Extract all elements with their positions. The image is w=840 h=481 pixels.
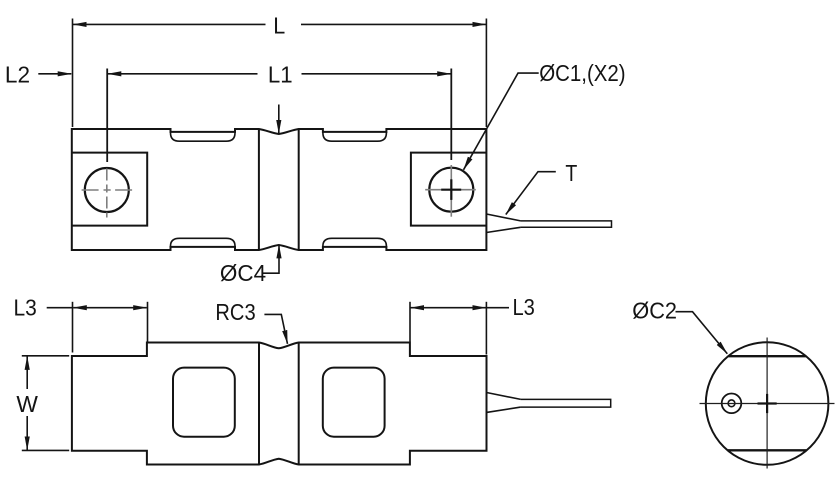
dimension and leader lines [22,19,728,451]
right boss square [411,153,487,226]
L2 leader arrow [38,73,71,75]
L1 extension line right [450,69,452,161]
L3 left extension lines [72,302,74,353]
end view crosshair horizontal [700,403,835,405]
end view bottom flat chord [728,449,807,451]
side view cable taper [486,214,520,233]
L extension line right [485,19,487,128]
svg-text:ØC2: ØC2 [632,298,677,324]
plan view body outline [72,343,487,465]
plan waist left wall [258,343,260,465]
svg-text:L1: L1 [268,61,293,88]
bottom notch A relief [171,238,236,247]
L3 left label leader [47,307,72,309]
L1 extension line left [106,69,108,163]
L1 dimension line [108,73,258,75]
left boss square [72,153,147,226]
right hole bold center cross [441,179,777,413]
T leader [506,172,556,215]
OC1 leader [464,73,539,170]
right hole horizontal centerline [425,189,476,191]
svg-text:L3: L3 [14,295,37,321]
L3 right extension lines [409,302,411,342]
bottom notch B relief [323,238,387,247]
left hole vertical centerline [106,169,108,218]
OC4 leader with arrow [263,245,279,273]
L extension line left [72,19,74,128]
end view crosshair vertical [700,338,835,469]
top notch A relief [171,132,236,141]
end view small hole outer [722,394,742,414]
L3 left dimension line [73,307,147,309]
waist right wall (side view) [298,129,300,250]
centerlines [82,165,476,218]
plan view cable [521,399,611,407]
side view cable [521,221,612,227]
end view circle [706,342,829,465]
end view small hole inner [728,400,735,407]
plan view cable taper [487,393,521,413]
end view top flat chord [728,355,806,357]
top view body outline [72,129,487,250]
svg-text:W: W [16,391,38,417]
W dimension line [26,356,28,389]
svg-text:T: T [565,159,577,186]
pocket 2 rounded square [323,368,385,437]
svg-text:ØC1,(X2): ØC1,(X2) [539,60,625,87]
svg-text:L3: L3 [513,294,535,321]
svg-text:RC3: RC3 [215,299,255,326]
pocket 1 rounded square [173,368,235,437]
end view bold center cross [758,402,777,404]
W extension lines [22,355,69,357]
left hole horizontal centerline [82,189,134,191]
L3 right dimension line [411,307,487,309]
svg-text:L2: L2 [5,61,30,87]
right hole circle [429,168,473,212]
L3 right label leader [486,307,509,309]
svg-text:L: L [273,13,285,39]
OC4 top arrow [278,105,280,134]
top notch B relief [323,132,387,141]
waist left wall (side view) [258,129,260,250]
svg-text:ØC4: ØC4 [220,260,266,287]
right hole vertical centerline [450,165,452,217]
RC3 leader [264,314,287,343]
OC2 leader [676,312,728,354]
left hole circle [85,168,129,212]
L dimension line [73,23,266,25]
plan waist right wall [298,343,300,465]
